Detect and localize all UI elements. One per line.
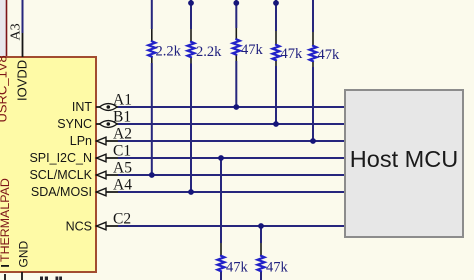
pin A1 INT: line + bidirectional lens glyph	[96, 104, 120, 111]
svg-text:C1: C1	[113, 143, 131, 160]
svg-text:SCL/MCLK: SCL/MCLK	[29, 168, 92, 182]
pin B1 SYNC: line + bidirectional lens glyph	[96, 121, 120, 128]
junction C2-R7	[258, 223, 264, 229]
svg-text:NCS: NCS	[66, 220, 92, 234]
wire net INT row	[118, 106, 345, 108]
pin A5 SCL/MCLK: line + input arrow	[96, 171, 120, 179]
svg-text:GND: GND	[17, 241, 31, 268]
wire net LPn row	[118, 140, 345, 142]
wire net SPI_I2C_N row	[118, 157, 345, 159]
junction R1-SCL	[149, 172, 155, 178]
svg-text:SPI_I2C_N: SPI_I2C_N	[29, 151, 92, 165]
resistor R3 47k pull-up	[233, 0, 240, 107]
svg-text:47k: 47k	[241, 42, 264, 58]
pin C1 SPI_I2C_N: line + input arrow	[96, 154, 120, 162]
svg-text:A3: A3	[9, 23, 24, 40]
junction top R3	[233, 0, 239, 6]
svg-text:A4: A4	[113, 177, 132, 194]
pin A3 IOVDD: pin line	[22, 32, 24, 57]
resistor R5 47k pull-up	[310, 0, 317, 141]
sheet-edge gray margin strip top-left	[0, 0, 6, 57]
IC U1 body (sensor, cut off at left edge)	[0, 57, 96, 272]
resistor R6 47k pull-down	[218, 255, 225, 280]
wire vertical SPI_I2C_N to R6	[220, 158, 222, 243]
Host MCU block	[345, 90, 463, 237]
svg-text:C2: C2	[113, 211, 131, 228]
stray glyph mark	[1, 265, 9, 267]
pin GND bottom stub	[21, 272, 23, 280]
pin designator fragment 1	[40, 277, 48, 280]
resistor R7 47k pull-down	[258, 255, 265, 280]
junction R3-INT	[233, 104, 239, 110]
svg-text:INT: INT	[72, 100, 93, 114]
junction top R2	[188, 0, 194, 6]
svg-text:LPn: LPn	[70, 134, 92, 148]
junction R5-LPn	[310, 138, 316, 144]
svg-text:2.2k: 2.2k	[196, 44, 222, 60]
pin A4 SDA/MOSI: line + input arrow	[96, 188, 120, 196]
pin A2 LPn: line + input arrow	[96, 137, 120, 145]
svg-text:A2: A2	[113, 126, 132, 143]
svg-text:B1: B1	[113, 109, 131, 126]
junction C1-R6	[218, 155, 224, 161]
wire net SYNC row	[118, 123, 345, 125]
svg-text:SDA/MOSI: SDA/MOSI	[31, 185, 92, 199]
pin thermal pad bottom stub	[4, 274, 6, 280]
pin designator fragment 2	[56, 277, 63, 280]
wire vertical NCS to R7	[260, 226, 262, 243]
junction top R4	[273, 0, 279, 6]
junction R2-SDA	[188, 189, 194, 195]
svg-text:USRC_1V8: USRC_1V8	[0, 55, 10, 122]
svg-text:A5: A5	[113, 160, 132, 177]
wire net SDA/MOSI row	[118, 191, 345, 193]
wire net NCS row	[118, 225, 345, 227]
svg-text:2.2k: 2.2k	[156, 44, 182, 60]
svg-text:Host MCU: Host MCU	[350, 146, 458, 172]
svg-text:IOVDD: IOVDD	[15, 60, 30, 101]
pin C2 NCS: line + input arrow	[96, 222, 120, 230]
svg-text:A1: A1	[113, 92, 132, 109]
svg-text:47k: 47k	[226, 259, 249, 275]
svg-text:THERMALPAD: THERMALPAD	[0, 178, 12, 262]
resistor R2 2.2k pull-up	[188, 0, 195, 192]
svg-text:SYNC: SYNC	[57, 117, 92, 131]
resistor R4 47k pull-up	[273, 0, 280, 124]
junction R4-SYNC	[273, 121, 279, 127]
wire to IOVDD net	[22, 0, 24, 33]
sheet border line	[6, 0, 8, 57]
wire net SCL/MCLK row	[118, 174, 345, 176]
resistor R1 2.2k pull-up	[148, 0, 155, 175]
svg-text:47k: 47k	[281, 46, 304, 62]
svg-text:47k: 47k	[266, 259, 289, 275]
svg-text:47k: 47k	[318, 47, 341, 63]
